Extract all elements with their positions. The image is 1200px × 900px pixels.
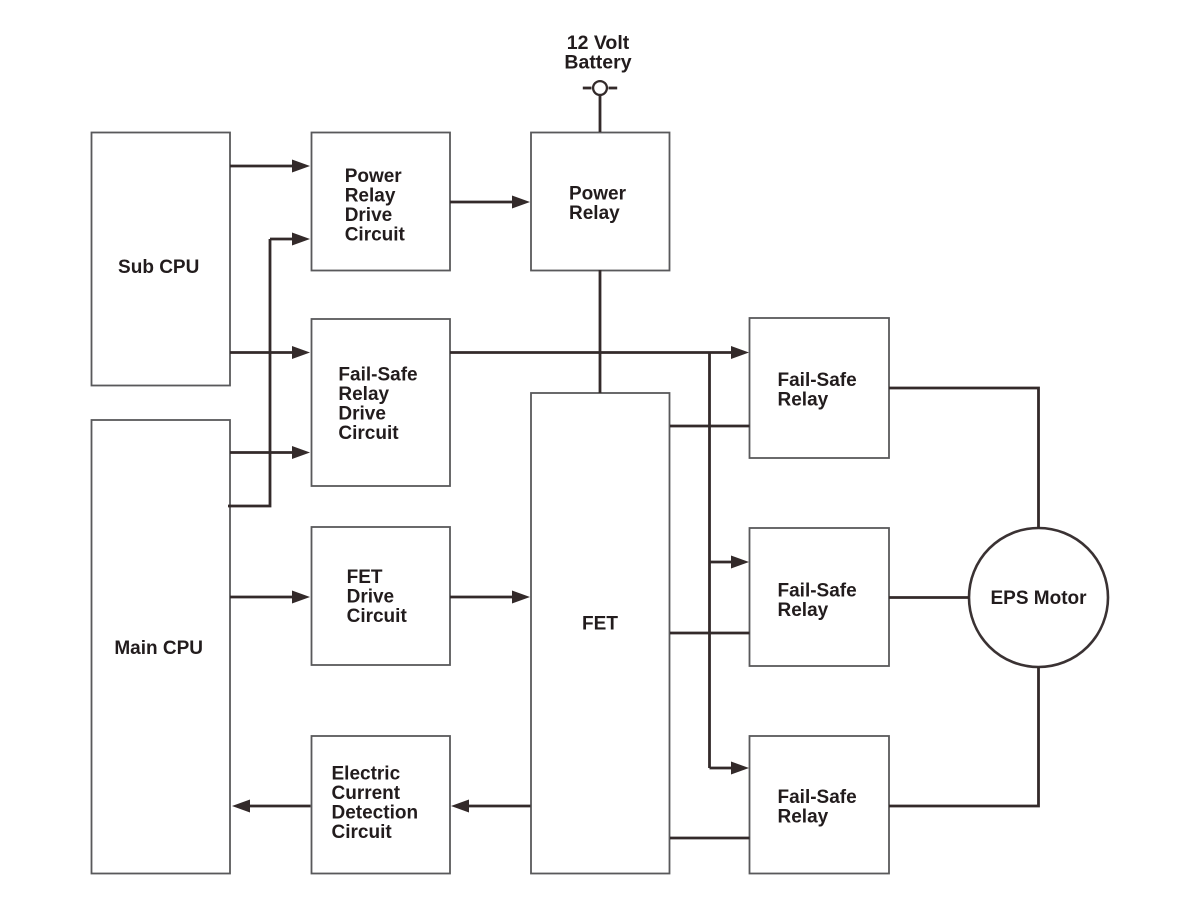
12 Volt Battery label bbox=[564, 32, 631, 74]
svg-text:Main CPU: Main CPU bbox=[114, 638, 203, 659]
wire branch to Power Relay Drive Circuit (lower arrow) bbox=[270, 233, 310, 246]
wire to Fail-Safe Relay 2 bbox=[710, 556, 750, 569]
wire Electric Current Detection Circuit to Main CPU bbox=[232, 800, 311, 813]
svg-text:FET: FET bbox=[582, 613, 618, 634]
block Fail-Safe Relay 1 bbox=[750, 318, 890, 458]
block Main CPU bbox=[92, 420, 231, 874]
wire FET to Fail-Safe Relay 1 bbox=[670, 425, 750, 428]
wire Main CPU to FET Drive Circuit bbox=[230, 591, 310, 604]
wire to Fail-Safe Relay 3 bbox=[710, 762, 750, 775]
block Sub CPU bbox=[92, 133, 231, 386]
svg-text:PowerRelay: PowerRelay bbox=[569, 184, 627, 225]
svg-text:Sub CPU: Sub CPU bbox=[118, 257, 199, 278]
block Power Relay bbox=[531, 133, 670, 271]
wire FET to Electric Current Detection Circuit bbox=[451, 800, 531, 813]
wire Fail-Safe Relay 2 to EPS Motor bbox=[889, 596, 969, 599]
block Electric Current Detection Circuit bbox=[312, 736, 451, 874]
wire Fail-Safe Relay 1 to EPS Motor bbox=[889, 388, 1039, 528]
block Fail-Safe Relay Drive Circuit bbox=[312, 319, 451, 486]
wire battery to Power Relay bbox=[599, 95, 602, 132]
EPS Motor bbox=[969, 528, 1108, 667]
block FET bbox=[531, 393, 670, 874]
wire Power Relay Drive Circuit to Power Relay bbox=[450, 196, 530, 209]
block Fail-Safe Relay 2 bbox=[750, 528, 890, 666]
block Power Relay Drive Circuit bbox=[312, 133, 451, 271]
wire Fail-Safe Relay Drive Circuit to Fail-Safe Relay 1 bbox=[450, 346, 749, 359]
wire Main CPU to Fail-Safe Relay Drive Circuit bbox=[230, 446, 310, 459]
wire FET to Fail-Safe Relay 2 bbox=[670, 632, 750, 635]
svg-text:EPS Motor: EPS Motor bbox=[990, 588, 1087, 609]
block FET Drive Circuit bbox=[312, 527, 451, 665]
block Fail-Safe Relay 3 bbox=[750, 736, 890, 874]
wire FET Drive Circuit to FET bbox=[450, 591, 530, 604]
wire FET to Fail-Safe Relay 3 bbox=[670, 837, 750, 840]
wire Sub CPU to Fail-Safe Relay Drive Circuit bbox=[230, 346, 310, 359]
battery terminal bbox=[583, 81, 617, 95]
wire Fail-Safe Relay 3 to EPS Motor bbox=[889, 667, 1039, 806]
wire Power Relay to FET bbox=[599, 270, 602, 393]
svg-text:12 VoltBattery: 12 VoltBattery bbox=[564, 32, 631, 74]
wire Sub CPU to Power Relay Drive Circuit bbox=[230, 160, 310, 173]
wire vertical distribution to relays bbox=[708, 353, 711, 769]
wire vertical riser from Main CPU bbox=[228, 239, 270, 506]
